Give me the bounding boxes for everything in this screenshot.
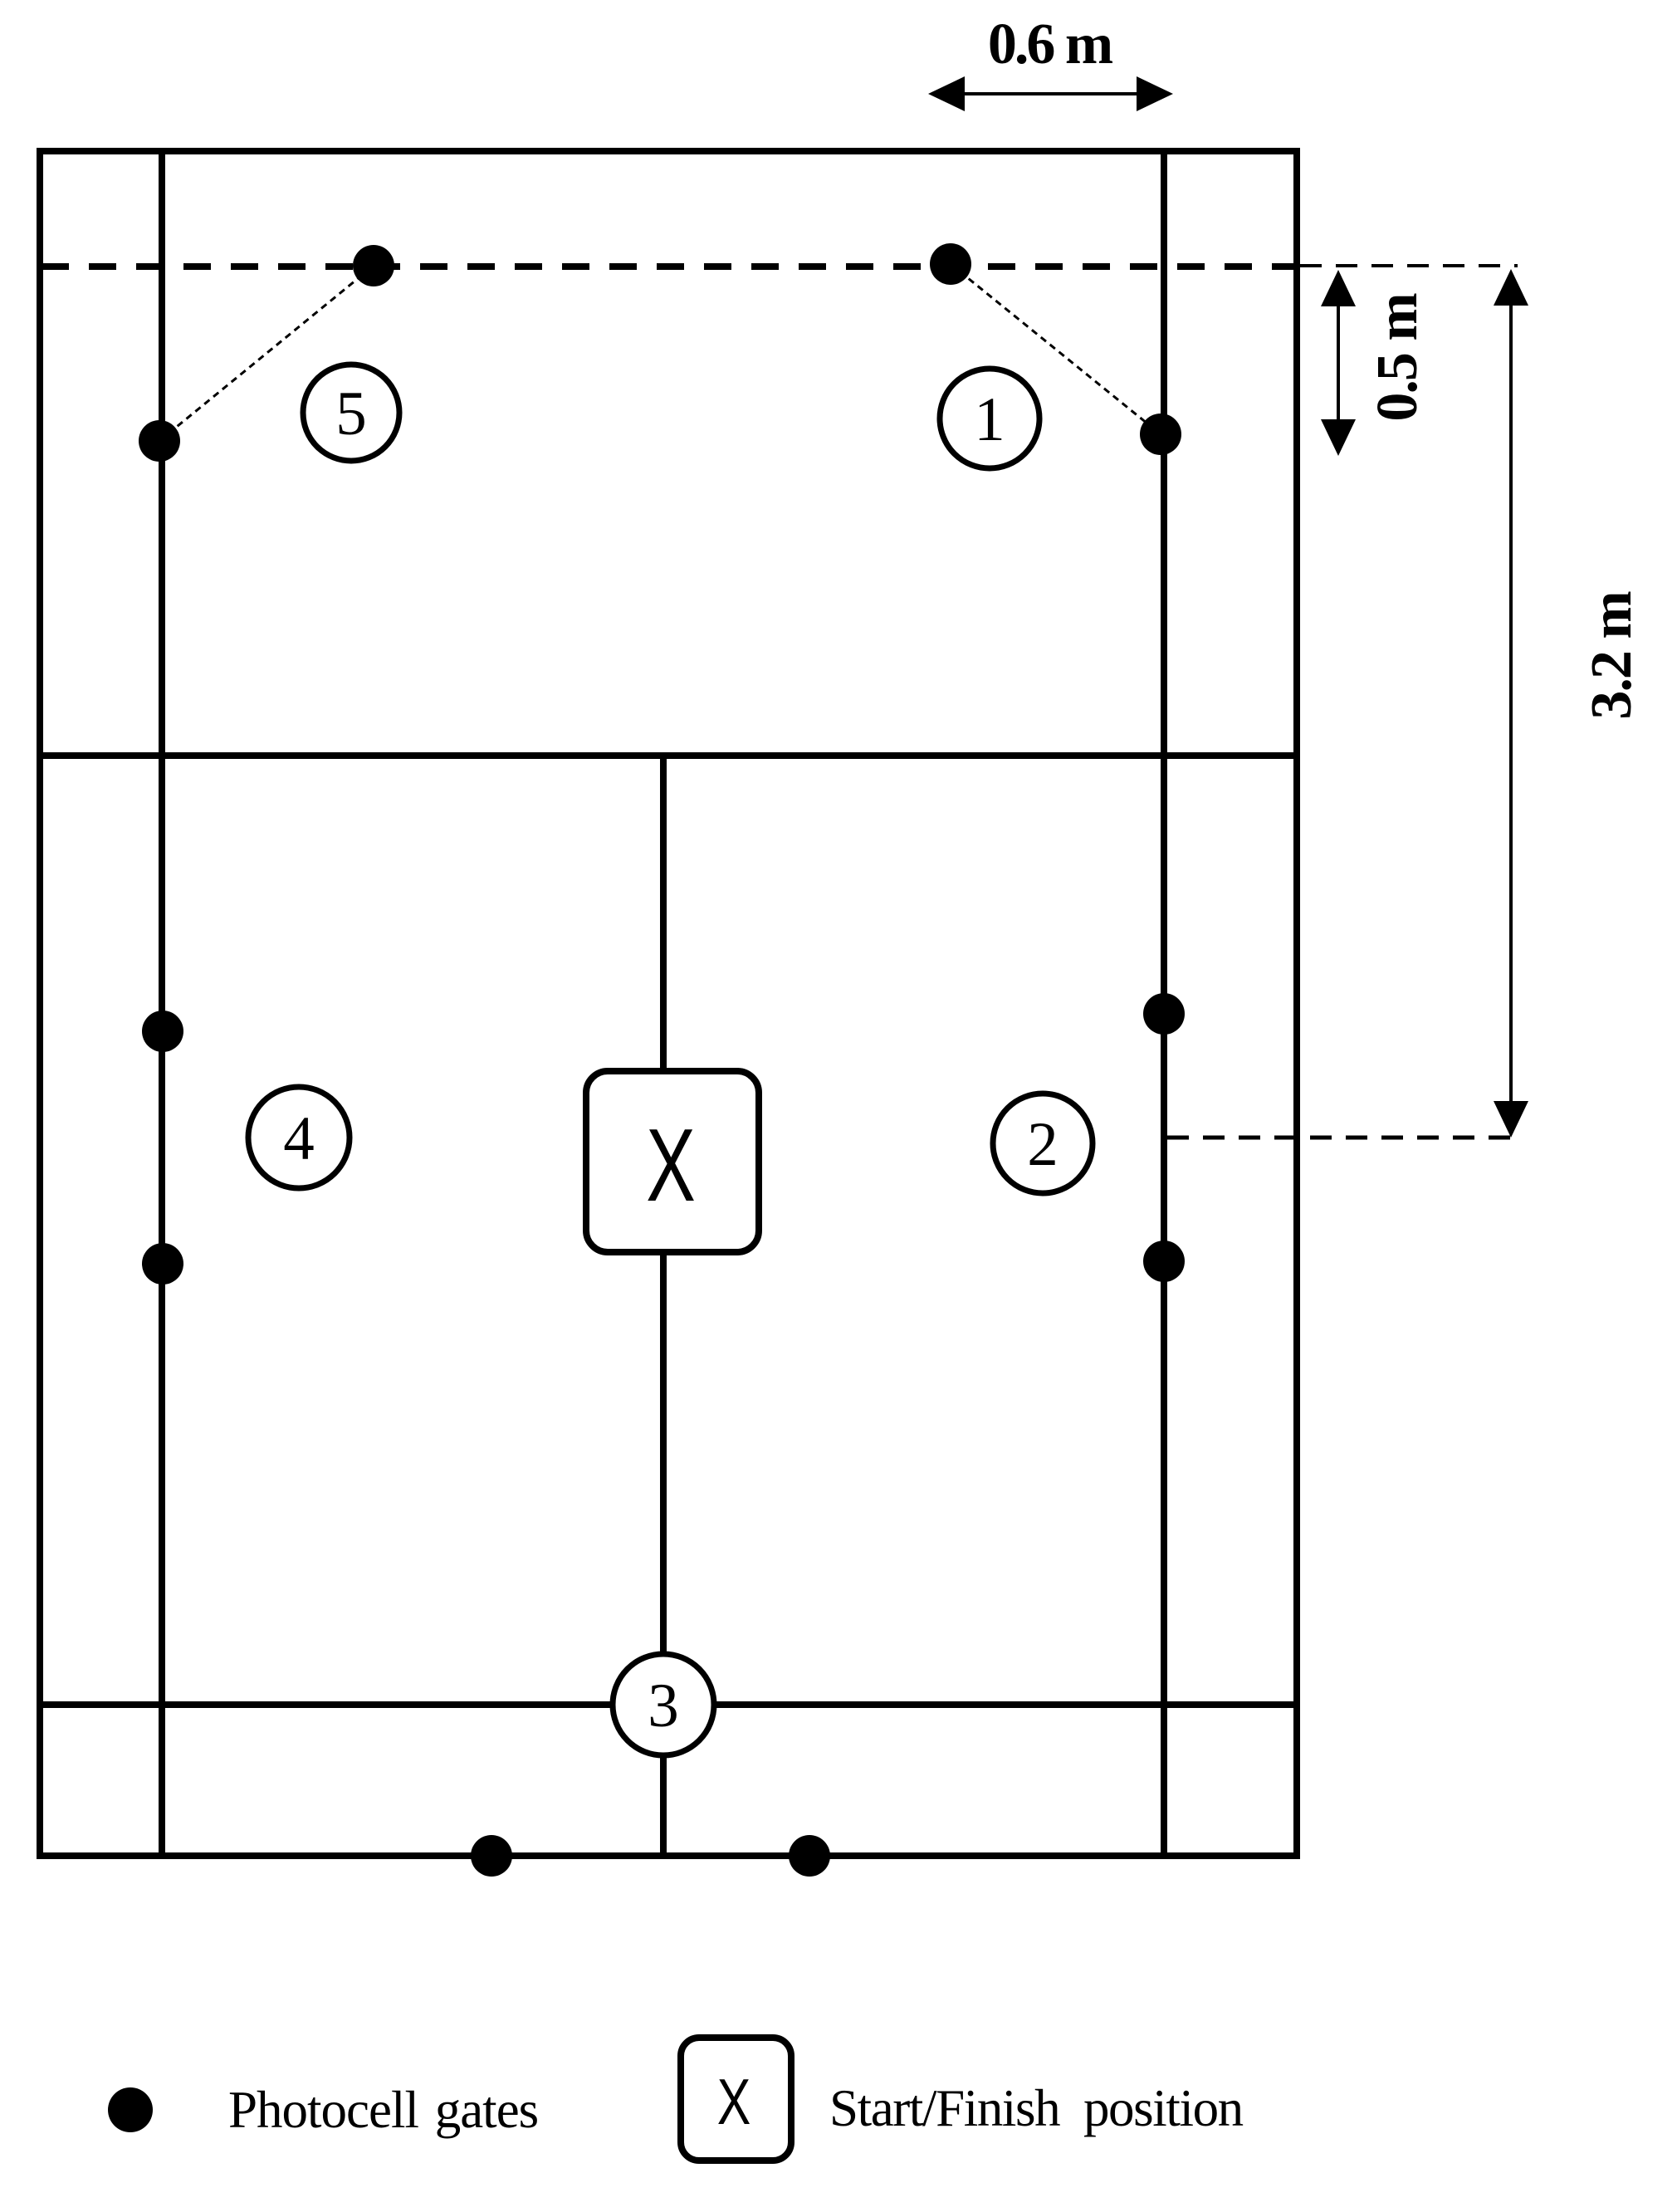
svg-text:Start/Finish position: Start/Finish position [829, 2079, 1244, 2137]
court outer boundary rectangle [40, 151, 1297, 1856]
bottom inner horizontal line [40, 1701, 1297, 1708]
thin dashed connector gate 5 [159, 266, 374, 441]
0.5 m dimension arrow [1321, 270, 1356, 456]
station circle 1 [940, 369, 1039, 468]
0.6 m dimension arrow [928, 76, 1173, 111]
photocell gate dot right sideline mid upper [1143, 993, 1185, 1035]
mid horizontal line [40, 752, 1297, 759]
svg-text:2: 2 [1027, 1110, 1059, 1179]
svg-text:5: 5 [335, 379, 367, 448]
station circle 3 [613, 1654, 714, 1755]
svg-text:Photocell gates: Photocell gates [228, 2081, 538, 2139]
thin dashed extension at mid right [1167, 1136, 1518, 1140]
svg-text:3.2 m: 3.2 m [1580, 591, 1644, 720]
start/finish X box [586, 1071, 759, 1252]
svg-text:0.6 m: 0.6 m [988, 12, 1113, 76]
legend start/finish box [681, 2038, 791, 2161]
photocell gate dot top-left on dashed line [353, 245, 394, 286]
photocell gate dot bottom left [471, 1835, 512, 1877]
photocell gate dot top-right on dashed line [930, 243, 971, 285]
station circle 2 [993, 1094, 1093, 1193]
bold dashed line (photocell row, top) [42, 263, 1295, 270]
photocell gate dot bottom right [789, 1835, 830, 1877]
svg-text:0.5 m: 0.5 m [1366, 293, 1430, 422]
centre vertical line [660, 756, 667, 1856]
left inner sideline [159, 148, 165, 1859]
photocell gate dot left sideline upper [139, 420, 180, 462]
legend photocell dot [108, 2087, 153, 2132]
svg-text:X: X [646, 1108, 696, 1223]
station circle 4 [248, 1087, 350, 1188]
photocell gate dot right sideline upper [1140, 414, 1181, 455]
svg-text:X: X [717, 2066, 751, 2138]
svg-text:4: 4 [283, 1104, 315, 1173]
svg-text:3: 3 [648, 1671, 679, 1740]
right inner sideline [1161, 148, 1167, 1859]
station circle 5 [303, 365, 399, 461]
photocell gate dot left sideline mid upper [142, 1011, 183, 1052]
photocell gate dot right sideline mid lower [1143, 1241, 1185, 1282]
photocell gate dot left sideline mid lower [142, 1243, 183, 1285]
thin dashed connector gate 1 [951, 264, 1161, 434]
3.2 m dimension arrow [1494, 269, 1528, 1138]
thin dashed extension at top right [1300, 264, 1518, 267]
svg-text:1: 1 [974, 385, 1005, 454]
